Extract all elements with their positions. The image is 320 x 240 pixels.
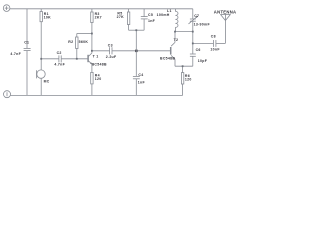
svg-text:2.2uF: 2.2uF [106,55,117,59]
svg-text:BC548B: BC548B [160,57,175,61]
svg-text:560K: 560K [79,40,89,44]
svg-text:4.7nF: 4.7nF [10,52,21,56]
svg-text:BC548B: BC548B [92,62,107,66]
svg-text:ANTENNA: ANTENNA [214,10,237,15]
capacitor C8 [214,40,216,47]
svg-text:C8: C8 [211,34,216,38]
svg-text:C3: C3 [108,44,113,48]
transistor T1 [88,53,92,64]
terminal 1 (+) [3,5,10,12]
svg-text:C5: C5 [148,13,153,17]
wire T2 emitter to C6 bottom [175,65,193,67]
trimmer capacitor C7 [189,9,198,32]
svg-text:C2: C2 [57,51,62,55]
svg-text:2K7: 2K7 [95,16,102,20]
svg-text:100mH: 100mH [157,13,170,17]
junction dots [40,29,193,67]
svg-text:27K: 27K [117,15,124,19]
svg-text:T2: T2 [174,38,179,42]
wire tank top L1 to C7 [175,31,192,33]
svg-text:MC: MC [44,80,50,84]
resistor R6 [181,66,183,95]
wire C7 node down to C8/C6 node [192,32,194,54]
wire C3 to T2 base [112,50,170,52]
capacitor C1 [24,9,31,96]
microphone MC [37,59,46,96]
svg-text:C7: C7 [194,14,199,18]
svg-text:120: 120 [95,77,102,81]
inductor L1 [175,9,178,32]
terminal 2 [4,91,11,98]
wire R3 to T1 collector [91,23,93,53]
wire mic node to C2 [41,58,59,60]
resistor R5 [127,9,129,30]
svg-text:13-90mF: 13-90mF [194,22,211,26]
wire node to C8 [193,42,214,44]
capacitor C4 [133,51,140,96]
wire T1 collector to C3 [92,50,110,52]
wire R5 C5 bottoms [129,29,145,31]
antenna [220,14,230,43]
wire V+ top rail [10,8,193,10]
wire C8 to antenna [216,42,225,44]
svg-text:4.7nF: 4.7nF [54,63,65,67]
wire drop to junction [135,30,137,51]
wire R2 top to collector line [77,33,92,35]
capacitor C6 [190,54,196,66]
resistor R3 [91,9,93,23]
capacitor C2 [59,55,61,62]
svg-text:1nF: 1nF [148,19,156,23]
resistor R1 [40,9,42,59]
svg-text:10pF: 10pF [198,59,208,63]
svg-text:1nF: 1nF [138,80,146,84]
wire T1 emitter to R4 [91,64,93,72]
wire ground bottom rail [10,94,183,96]
svg-text:R2: R2 [68,40,73,44]
svg-text:C6: C6 [196,48,201,52]
transistor T2 [171,32,175,67]
resistor R2 [76,34,78,59]
svg-text:120: 120 [185,77,192,81]
svg-text:C1: C1 [24,40,29,44]
svg-text:C4: C4 [138,73,143,77]
junction node base T2 / C4 / R5C5 [135,50,138,53]
capacitor C3 [110,47,112,54]
svg-text:10nF: 10nF [210,47,220,51]
svg-text:10K: 10K [44,15,51,19]
capacitor C5 [141,9,148,30]
resistor R4 [91,72,93,95]
svg-text:T 1: T 1 [93,55,99,59]
wire C2 to T1 base [61,58,87,60]
